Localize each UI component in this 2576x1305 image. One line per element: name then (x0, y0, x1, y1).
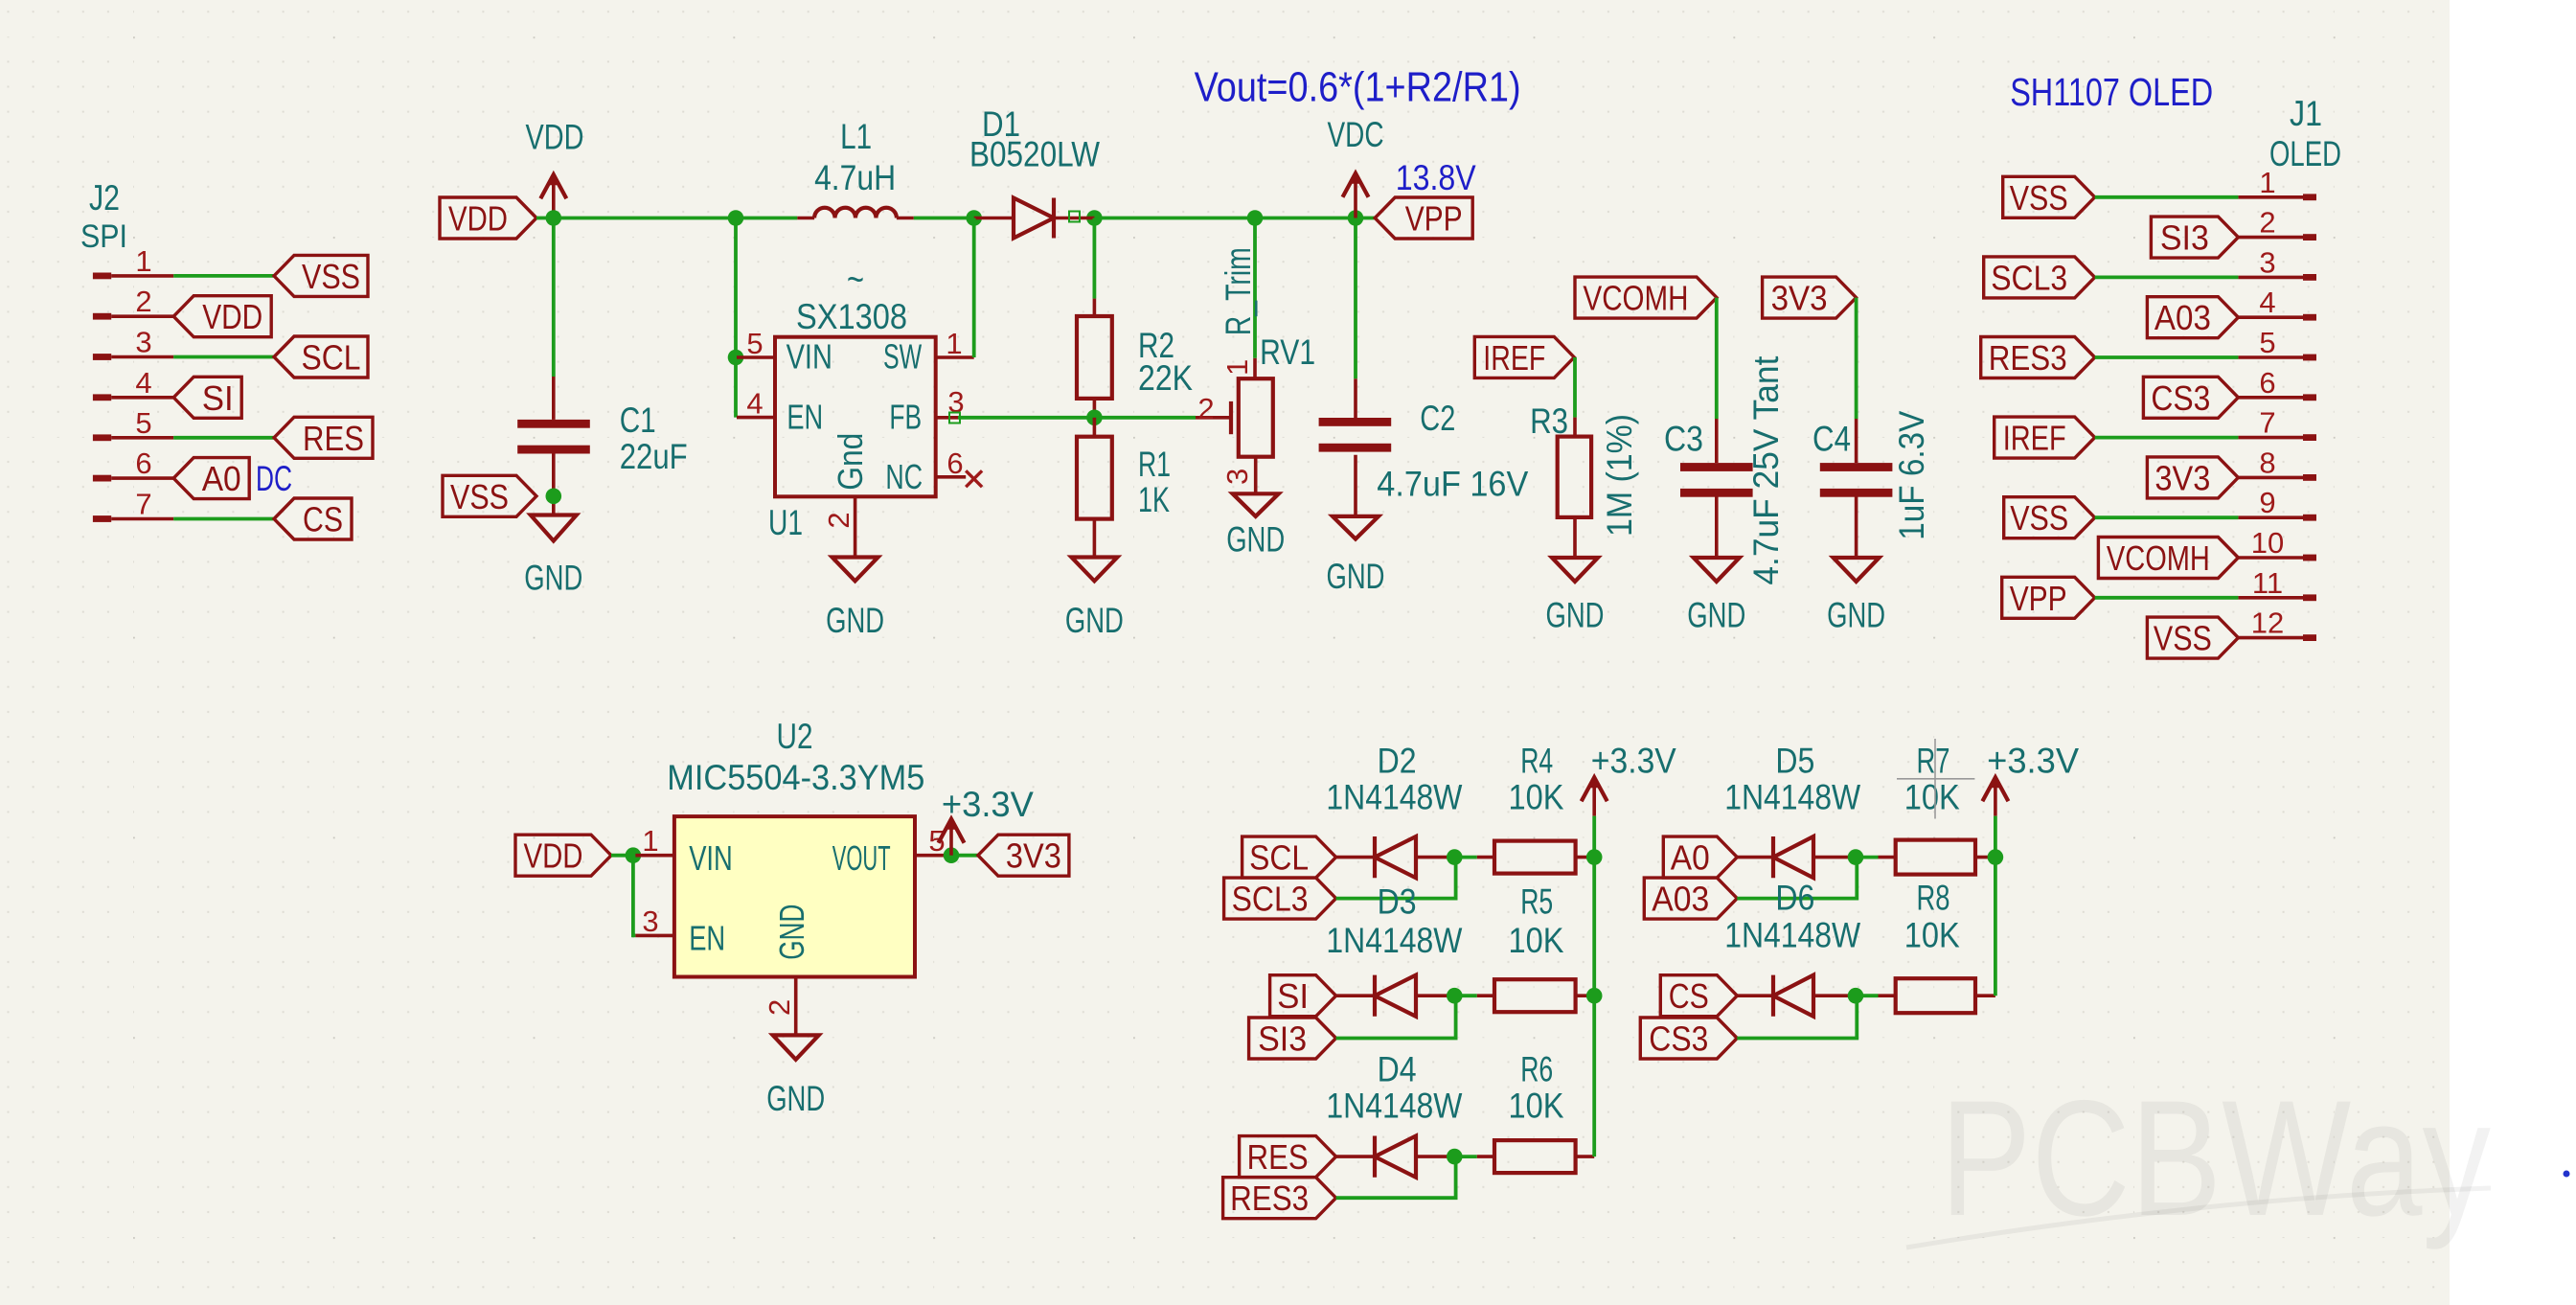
junction VDD/C1 (546, 210, 562, 226)
svg-text:J2: J2 (89, 178, 120, 217)
svg-text:VDD: VDD (202, 297, 262, 336)
resistor R2 pins (1093, 299, 1097, 316)
svg-text:4.7uF 16V: 4.7uF 16V (1377, 464, 1528, 503)
J1 pin 10 (2238, 555, 2316, 561)
resistor R6 (1494, 1140, 1576, 1173)
IC U2 MIC5504 body (674, 816, 915, 976)
svg-text:CS3: CS3 (1649, 1019, 1708, 1059)
svg-text:5: 5 (2259, 326, 2275, 359)
svg-text:B0520LW: B0520LW (969, 135, 1100, 174)
U1 pin 5 stub (737, 355, 775, 359)
svg-text:C2: C2 (1420, 399, 1455, 438)
junction D6/R8 (1848, 988, 1864, 1004)
inductor L1 pins (797, 217, 814, 220)
svg-text:4: 4 (2259, 286, 2275, 319)
hierarchical label SCL3 (1224, 878, 1336, 919)
junction VDC/C2 (1348, 210, 1364, 226)
svg-text:SCL3: SCL3 (1232, 880, 1309, 919)
resistor R3 (1558, 437, 1591, 517)
hierarchical label VSS (J1) (2004, 497, 2095, 538)
svg-text:VSS: VSS (2154, 619, 2212, 658)
wire bus to RV1 (1253, 218, 1257, 358)
svg-text:GND: GND (826, 601, 884, 640)
svg-text:+3.3V: +3.3V (1591, 742, 1676, 781)
svg-text:2: 2 (822, 512, 855, 528)
wire VDD to VIN/EN (734, 218, 738, 418)
svg-text:10K: 10K (1509, 778, 1564, 817)
svg-text:R_Trim: R_Trim (1219, 247, 1258, 335)
resistor R2 (1077, 316, 1112, 399)
svg-text:RV1: RV1 (1260, 332, 1315, 372)
wire J2 pin 5 to label RES (173, 436, 274, 440)
svg-text:SH1107 OLED: SH1107 OLED (2010, 70, 2213, 114)
junction D3/R5 (1447, 988, 1463, 1004)
svg-text:VDD: VDD (526, 118, 584, 157)
svg-text:GND: GND (1226, 519, 1285, 559)
svg-text:SI3: SI3 (2160, 218, 2209, 258)
no-connect cross at pin 6 (966, 470, 982, 487)
svg-text:1K: 1K (1138, 480, 1170, 519)
diode D1 (1014, 198, 1054, 239)
capacitor C3 (1680, 463, 1753, 497)
ground below R1 (1071, 558, 1117, 582)
wire VDD to EN (633, 856, 636, 936)
svg-text:RES3: RES3 (1230, 1179, 1309, 1218)
capacitor C4 pins (1855, 419, 1858, 463)
wire J2 pin 3 to label SCL (173, 355, 274, 359)
J2 pin 2 (93, 313, 173, 320)
svg-text:MIC5504-3.3YM5: MIC5504-3.3YM5 (667, 758, 924, 797)
svg-text:1: 1 (642, 824, 658, 858)
svg-text:2: 2 (135, 285, 151, 318)
svg-text:R6: R6 (1520, 1050, 1553, 1089)
svg-text:~: ~ (847, 259, 864, 301)
svg-text:12: 12 (2251, 607, 2284, 640)
ground below RV1 (1233, 493, 1279, 516)
wire VDD label to U2 (611, 854, 635, 858)
svg-text:A03: A03 (1652, 880, 1709, 919)
svg-text:+3.3V: +3.3V (1987, 742, 2079, 781)
svg-text:4: 4 (135, 366, 151, 400)
wire +3.3V bus (right group) (1994, 816, 1997, 996)
svg-text:GND: GND (1687, 596, 1745, 635)
wire D1 to R2 (1093, 218, 1097, 299)
J2 pin 1 (93, 273, 173, 280)
svg-text:VPP: VPP (2010, 579, 2067, 618)
wire junction to R7 (1856, 856, 1879, 859)
hierarchical label VDD (U2) (515, 835, 611, 876)
junction D1/R2 (1086, 210, 1103, 226)
svg-text:SX1308: SX1308 (796, 297, 907, 336)
svg-text:D3: D3 (1378, 882, 1417, 922)
resistor R7 pins (1879, 856, 1896, 859)
wire SW to bus (972, 218, 976, 358)
resistor R6 pins (1477, 1155, 1494, 1158)
diode D2 (1375, 836, 1416, 878)
hierarchical label CS (274, 498, 352, 539)
svg-text:GND: GND (772, 904, 811, 960)
+3.3V power arrow (U2) (939, 819, 965, 856)
wire SCL3 to junction (1336, 858, 1456, 899)
svg-text:CS3: CS3 (2151, 378, 2210, 418)
capacitor C1 pins (552, 377, 556, 420)
svg-text:7: 7 (2259, 406, 2275, 440)
svg-text:VSS: VSS (2010, 498, 2068, 538)
J1 pin 3 (2238, 274, 2316, 281)
wire +3.3V bus (left group) (1592, 816, 1596, 1157)
wire IREF to R3 (1573, 357, 1577, 418)
J1 pin 11 (2238, 594, 2316, 601)
hierarchical label VSS (274, 255, 368, 296)
U2 pin 3 stub (635, 934, 674, 938)
J1 pin 5 (2238, 355, 2316, 361)
diode D6 (1773, 975, 1813, 1017)
wire VDD bus left segment (536, 217, 797, 220)
ground below C3 (1694, 558, 1740, 582)
J1 pin 2 (2238, 234, 2316, 240)
svg-text:VPP: VPP (1405, 199, 1463, 239)
+3.3V power arrow (right group) (1982, 777, 2008, 815)
J2 pin 4 (93, 394, 173, 401)
svg-text:VOUT: VOUT (832, 838, 891, 878)
J1 pin 1 (2238, 194, 2316, 200)
U2 pin 1 stub (635, 854, 674, 858)
svg-text:IREF: IREF (1483, 338, 1545, 378)
svg-text:1N4148W: 1N4148W (1326, 1087, 1462, 1126)
VDD power arrow (540, 174, 566, 217)
resistor R3 pins (1573, 418, 1577, 437)
U1 pin 2 stub GND (854, 497, 857, 558)
svg-text:VSS: VSS (2010, 178, 2068, 217)
hierarchical label A0 (1663, 836, 1737, 878)
svg-text:SI3: SI3 (1258, 1019, 1307, 1059)
capacitor C2 (1319, 418, 1392, 452)
diode D2 pins (1336, 856, 1375, 859)
wire VDC to C2 (1354, 218, 1357, 379)
wire label to J1 pin 3 (2095, 275, 2239, 279)
hierarchical label SCL (274, 336, 368, 378)
wire label to J1 pin 1 (2095, 195, 2239, 199)
wire junction to R6 (1454, 1155, 1477, 1158)
wire CS3 to junction (1737, 996, 1857, 1038)
svg-text:SPI: SPI (80, 218, 127, 255)
svg-text:C1: C1 (620, 401, 656, 440)
svg-text:U1: U1 (768, 503, 803, 542)
wire label to J1 pin 9 (2095, 515, 2239, 519)
svg-text:4.7uH: 4.7uH (814, 158, 896, 197)
VDC power arrow (1343, 173, 1369, 218)
J1 pin 7 (2238, 434, 2316, 441)
hierarchical label VSS (J1) (2147, 617, 2238, 658)
svg-text:10K: 10K (1509, 921, 1564, 960)
wire VDD to C1 (552, 218, 556, 378)
resistor R4 pins (1477, 856, 1494, 859)
svg-text:VCOMH: VCOMH (1584, 279, 1689, 318)
resistor R8 pins (1879, 994, 1896, 997)
hierarchical label SI (1270, 975, 1336, 1017)
resistor R1 (1077, 437, 1112, 519)
junction R7/+3.3V (1988, 849, 2004, 865)
svg-text:D6: D6 (1775, 878, 1814, 917)
diode D4 (1375, 1136, 1416, 1178)
IC U1 SX1308 body (775, 337, 936, 497)
svg-text:PCBWay: PCBWay (1940, 1066, 2491, 1250)
wire VOUT to 3V3 label (949, 854, 978, 858)
wire A03 to junction (1737, 858, 1857, 899)
J2 pin 6 (93, 475, 173, 482)
junction VDD/EN (626, 847, 642, 863)
svg-text:3V3: 3V3 (1771, 279, 1828, 318)
svg-text:OLED: OLED (2269, 134, 2341, 173)
svg-text:VCOMH: VCOMH (2107, 538, 2210, 578)
resistor R7 (1896, 840, 1975, 875)
svg-text:R7: R7 (1917, 742, 1950, 781)
svg-text:SI: SI (202, 378, 234, 418)
svg-text:VDD: VDD (524, 836, 583, 876)
unconnected marker at FB pin (949, 413, 960, 424)
diode D3 (1375, 975, 1416, 1017)
svg-text:5: 5 (746, 327, 763, 360)
trimmer RV1 wiper (1196, 401, 1231, 434)
hierarchical label A0 (173, 458, 249, 499)
hierarchical label VCOMH (1575, 277, 1717, 318)
capacitor C3 pins (1715, 419, 1719, 463)
svg-text:GND: GND (524, 559, 582, 598)
U1 pin 6 stub NC (936, 475, 966, 479)
junction L1/SW (966, 210, 982, 226)
diode D4 pins (1336, 1155, 1375, 1158)
svg-text:SI: SI (1277, 976, 1309, 1016)
svg-text:A03: A03 (2154, 298, 2211, 337)
junction VDD/VIN (728, 210, 744, 226)
svg-text:A0: A0 (202, 459, 241, 498)
diode D1 pins (974, 217, 1014, 220)
ground below C1 (531, 515, 577, 541)
capacitor C2 pins (1354, 378, 1357, 418)
wire D1 cathode to VPP (1094, 217, 1375, 220)
svg-text:1M (1%): 1M (1%) (1600, 414, 1639, 537)
svg-text:GND: GND (1065, 601, 1124, 640)
hierarchical label SCL (1242, 836, 1336, 878)
svg-text:VSS: VSS (302, 257, 360, 296)
ground below C4 (1834, 558, 1880, 582)
junction D2/R4 (1447, 849, 1463, 865)
hierarchical label VDD (173, 296, 271, 337)
svg-text:RES: RES (303, 419, 364, 458)
J1 pin 9 (2238, 515, 2316, 521)
svg-text:7: 7 (135, 488, 151, 521)
svg-text:EN: EN (689, 919, 725, 958)
diode D3 pins (1336, 994, 1375, 997)
svg-text:VIN: VIN (786, 337, 832, 377)
U1 pin 4 stub (737, 416, 775, 420)
capacitor C1 (517, 420, 590, 454)
svg-text:U2: U2 (777, 717, 813, 756)
hierarchical label SI3 (J1) (2151, 217, 2238, 258)
svg-text:A0: A0 (1671, 838, 1710, 878)
svg-text:13.8V: 13.8V (1396, 158, 1476, 197)
wire label to J1 pin 5 (2095, 355, 2239, 359)
junction R5/+3.3V (1586, 988, 1603, 1004)
wire RES3 to junction (1336, 1156, 1456, 1198)
svg-text:3V3: 3V3 (2154, 458, 2210, 497)
hierarchical label 3V3 (1763, 277, 1857, 318)
svg-text:6: 6 (946, 446, 963, 480)
svg-text:10K: 10K (1904, 915, 1960, 954)
trimmer RV1 pin 3 (1254, 457, 1258, 494)
svg-text:SCL: SCL (1249, 838, 1309, 878)
svg-text:R3: R3 (1530, 401, 1568, 441)
U1 pin 1 stub SW (936, 355, 974, 359)
hierarchical label RES3 (1223, 1178, 1336, 1219)
svg-text:22uF: 22uF (620, 437, 688, 476)
J1 pin 8 (2238, 474, 2316, 481)
svg-text:2: 2 (763, 999, 796, 1016)
svg-text:1N4148W: 1N4148W (1326, 921, 1462, 960)
junction R4/+3.3V (1586, 849, 1603, 865)
svg-text:1N4148W: 1N4148W (1724, 778, 1860, 817)
svg-text:R5: R5 (1520, 882, 1553, 922)
svg-text:R8: R8 (1917, 878, 1950, 917)
hierarchical label CS (1660, 975, 1737, 1017)
svg-text:1: 1 (2259, 166, 2275, 199)
wire L1 to SW node (914, 217, 974, 220)
svg-text:+3.3V: +3.3V (942, 785, 1034, 824)
junction D5/R7 (1848, 849, 1864, 865)
wire 3V3 to C4 (1855, 298, 1858, 419)
svg-text:D2: D2 (1378, 742, 1417, 781)
svg-text:C3: C3 (1664, 420, 1703, 459)
svg-text:SW: SW (883, 337, 922, 377)
svg-text:3: 3 (1220, 469, 1254, 485)
hierarchical label SI3 (1249, 1018, 1336, 1059)
svg-text:CS: CS (1669, 976, 1709, 1016)
svg-text:SCL: SCL (302, 338, 361, 378)
hierarchical label CS3 (1640, 1018, 1737, 1059)
J1 pin 6 (2238, 394, 2316, 401)
ground below U1 (832, 558, 878, 582)
hierarchical label SCL3 (J1) (1984, 257, 2095, 298)
svg-text:D5: D5 (1775, 742, 1814, 781)
hierarchical label SI (173, 377, 241, 418)
wire junction to R4 (1454, 856, 1477, 859)
svg-text:VDC: VDC (1328, 115, 1384, 154)
ground below C2 (1333, 516, 1379, 539)
svg-text:3V3: 3V3 (1006, 836, 1061, 876)
U1 pin 3 stub FB (936, 416, 958, 420)
trimmer RV1 body (1239, 378, 1273, 457)
svg-text:4.7uF 25V Tant: 4.7uF 25V Tant (1746, 355, 1786, 585)
svg-text:RES: RES (1247, 1137, 1309, 1177)
capacitor C4 (1820, 463, 1893, 497)
svg-text:10K: 10K (1509, 1087, 1564, 1126)
diode D6 pins (1737, 994, 1773, 997)
hierarchical label VPP (1375, 197, 1472, 239)
svg-text:8: 8 (2259, 446, 2275, 479)
hierarchical label RES3 (J1) (1981, 337, 2095, 378)
wire label to J1 pin 11 (2095, 596, 2239, 600)
svg-text:6: 6 (135, 446, 151, 480)
svg-text:9: 9 (2259, 486, 2275, 519)
svg-text:CS: CS (303, 500, 343, 539)
svg-text:VIN: VIN (689, 838, 733, 878)
svg-text:GND: GND (1827, 596, 1885, 635)
J1 pin 4 (2238, 314, 2316, 321)
svg-text:6: 6 (2259, 366, 2275, 400)
junction R2/R1/FB (1086, 410, 1103, 426)
U2 pin 5 stub VOUT (915, 854, 949, 858)
svg-text:1uF 6.3V: 1uF 6.3V (1892, 410, 1931, 539)
hierarchical label A03 (1644, 878, 1737, 919)
ground below U2 (773, 1035, 819, 1059)
svg-text:5: 5 (135, 406, 151, 440)
wire VCOMH to C3 (1715, 298, 1719, 419)
hierarchical label 3V3 (J1) (2147, 457, 2238, 498)
svg-text:FB: FB (889, 398, 922, 437)
diode D5 pins (1737, 856, 1773, 859)
hierarchical label VCOMH (J1) (2098, 538, 2238, 579)
svg-text:R1: R1 (1138, 445, 1171, 484)
wire J2 pin 7 to label CS (173, 517, 274, 521)
svg-text:VSS: VSS (450, 477, 509, 516)
svg-text:R4: R4 (1520, 742, 1553, 781)
hierarchical label CS3 (J1) (2143, 377, 2238, 418)
wire SI3 to junction (1336, 996, 1456, 1038)
svg-text:DC: DC (256, 459, 292, 498)
hierarchical label A03 (J1) (2147, 297, 2238, 338)
hierarchical label IREF (J1) (1995, 417, 2095, 458)
svg-text:D4: D4 (1378, 1050, 1417, 1089)
svg-text:J1: J1 (2290, 94, 2322, 133)
junction VOUT/3V3 (944, 847, 960, 863)
U2 pin 2 stub GND (794, 977, 798, 1036)
resistor R1 pins (1093, 418, 1097, 437)
svg-text:4: 4 (746, 387, 763, 421)
junction RV1 top (1247, 210, 1264, 226)
svg-text:GND: GND (1327, 557, 1385, 596)
hierarchical label VDD (input) (440, 197, 536, 239)
svg-text:RES3: RES3 (1989, 338, 2067, 378)
hierarchical label RES (1240, 1136, 1336, 1178)
hierarchical label IREF (1474, 336, 1574, 378)
wire FB net (958, 416, 1196, 420)
svg-text:11: 11 (2252, 566, 2283, 600)
svg-text:L1: L1 (840, 117, 872, 156)
svg-text:Vout=0.6*(1+R2/R1): Vout=0.6*(1+R2/R1) (1195, 64, 1521, 111)
svg-text:GND: GND (766, 1079, 825, 1118)
hierarchical label VPP (J1) (2002, 577, 2095, 618)
svg-text:10: 10 (2251, 526, 2284, 560)
hierarchical label VSS (J1) (2003, 176, 2095, 217)
trimmer RV1 pin 1 (1253, 358, 1257, 378)
svg-text:IREF: IREF (2003, 419, 2066, 458)
resistor R4 (1494, 841, 1576, 874)
svg-text:Gnd: Gnd (831, 433, 870, 491)
resistor R5 pins (1477, 994, 1494, 997)
svg-text:EN: EN (786, 398, 823, 437)
junction VIN tap (728, 350, 744, 366)
svg-text:SCL3: SCL3 (1991, 258, 2067, 297)
svg-text:10K: 10K (1904, 778, 1960, 817)
svg-text:5: 5 (928, 824, 945, 858)
svg-text:NC: NC (885, 457, 923, 496)
inductor L1 (814, 208, 897, 218)
svg-text:2: 2 (1197, 392, 1214, 425)
ground below R3 (1552, 558, 1598, 582)
PCBWay watermark (1906, 1066, 2491, 1250)
svg-text:3: 3 (2259, 245, 2275, 279)
hierarchical label 3V3 (U2) (978, 835, 1069, 876)
